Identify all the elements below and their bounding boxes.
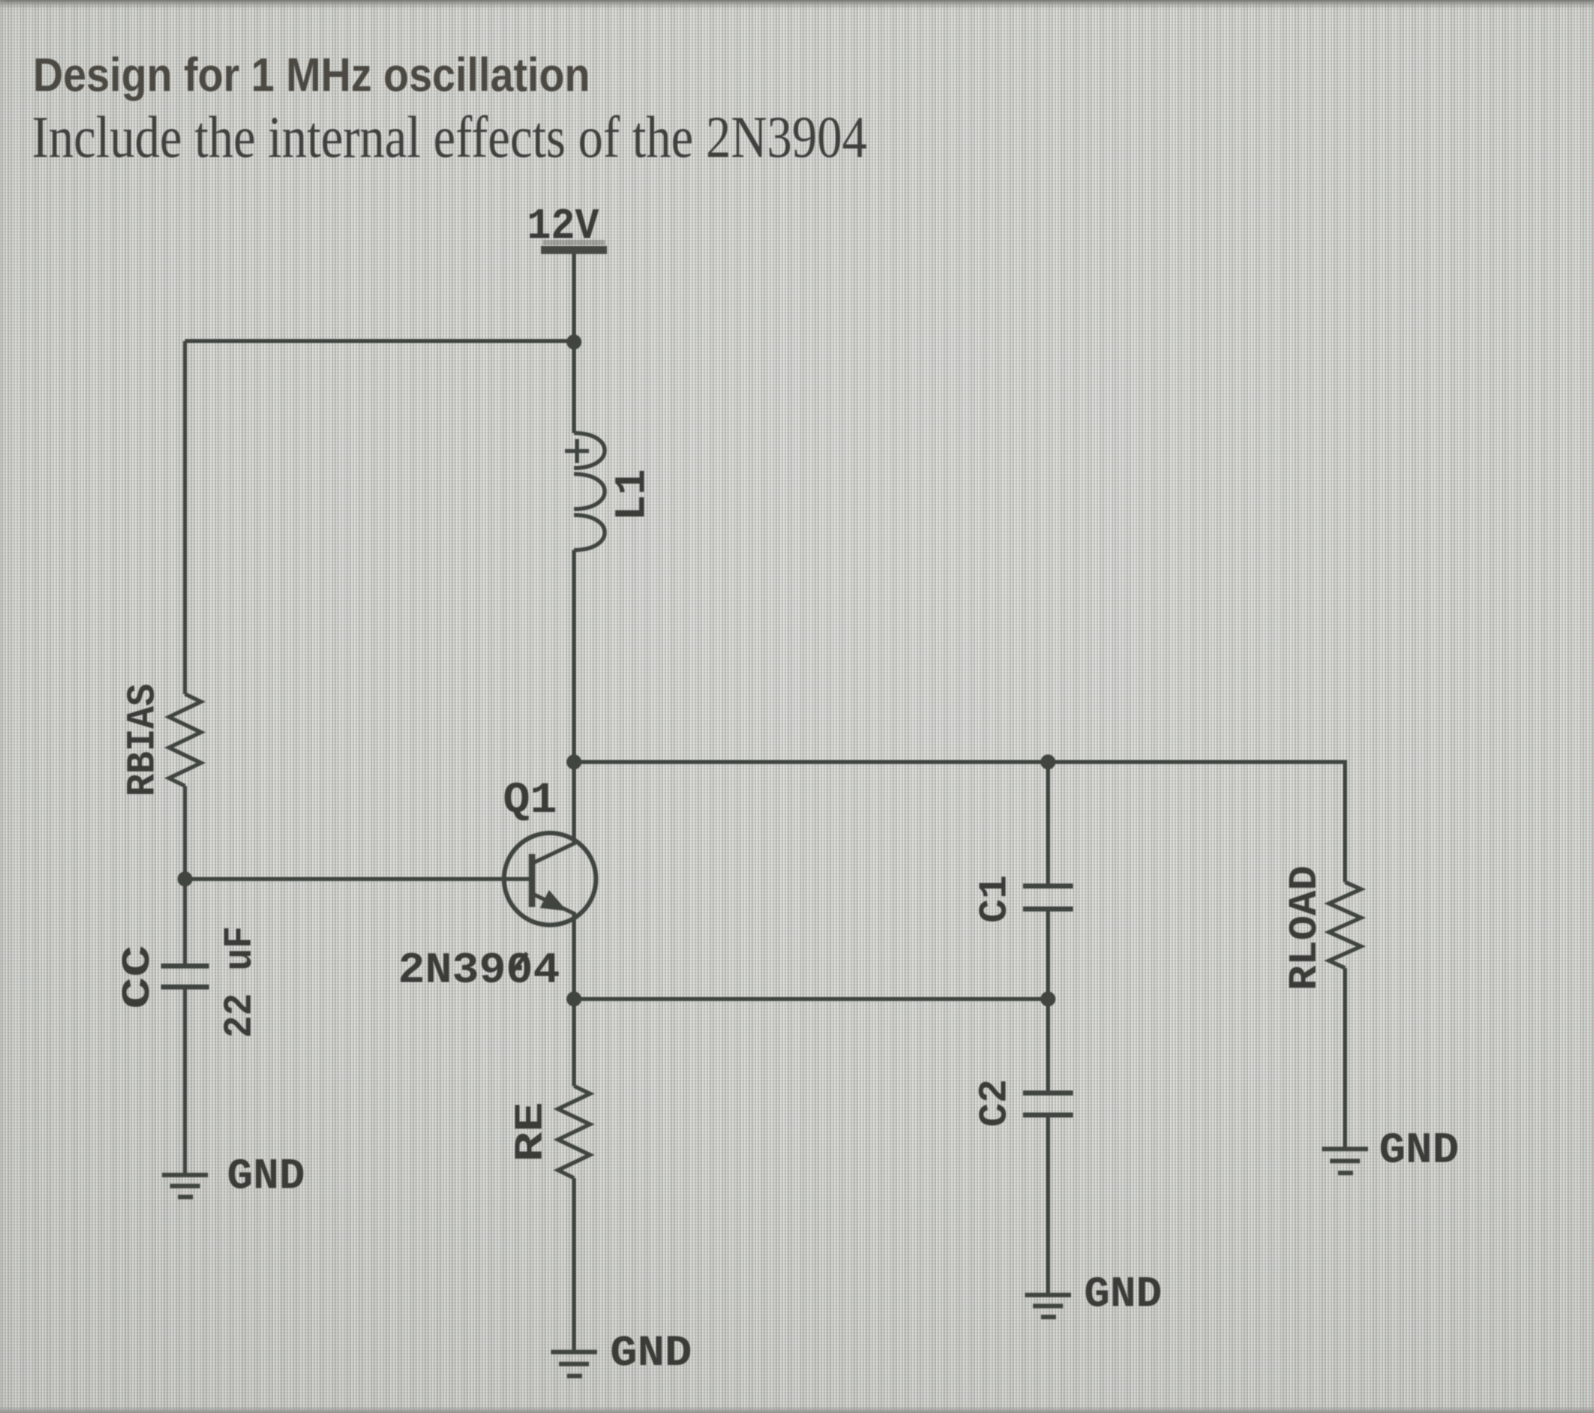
wire: collector row horizontal to RLOAD corner [574,762,1345,882]
wire: mid junction to C2 top plate [1046,999,1050,1093]
resistor RE [558,1086,590,1178]
node: emitter junction [567,992,582,1007]
wire: inductor bottom to transistor collector [572,550,576,845]
wire: emitter down to emitter junction [572,912,576,999]
transistor Q1 collector diagonal [533,843,575,863]
svg-text:GND: GND [227,1152,305,1202]
svg-text:GND: GND [1084,1270,1162,1320]
svg-text:Q1: Q1 [503,776,557,826]
transistor Q1 base bar [529,854,536,907]
ground (C2) [1025,1295,1071,1317]
capacitor C1 plates [1023,886,1073,909]
svg-text:2N3904: 2N3904 [398,946,560,996]
wire: emitter row horizontal [574,997,1048,1001]
wire: top rail horizontal to left column [185,339,574,343]
svg-text:RLOAD: RLOAD [1284,866,1329,991]
wire: base wire from left junction [185,877,530,881]
label 2N3904 zero slash [511,953,527,974]
inductor polarity plus [565,439,589,463]
node: C1 top junction [1041,755,1056,770]
svg-text:L1: L1 [608,469,658,521]
svg-text:Include the internal effects o: Include the internal effects of the 2N39… [32,104,867,170]
transistor Q1 circle [504,833,596,925]
inductor L1 coil [574,433,605,550]
svg-text:22 uF: 22 uF [219,926,264,1038]
wire: C2 bottom to GND [1046,1115,1050,1295]
node: junction 12V rail / left branch [567,335,582,350]
wire: RE bottom to GND [572,1178,576,1352]
wire: C1 bottom to mid junction [1046,909,1050,999]
wire: 12V bar to inductor top [572,254,576,433]
transistor Q1 emitter diagonal [533,894,575,914]
svg-text:C2: C2 [974,1079,1019,1127]
wire: CC bottom to GND [183,987,187,1175]
svg-text:C1: C1 [974,875,1019,923]
ground (left, CC) [162,1175,208,1197]
title line 2 [32,104,867,170]
wire: emitter junction down to RE [572,999,576,1086]
resistor RBIAS [169,694,201,786]
wire: RBIAS bottom to base junction [183,786,187,879]
svg-text:GND: GND [1379,1126,1459,1176]
svg-text:12V: 12V [527,202,600,252]
wire: RLOAD bottom to GND [1343,968,1347,1149]
svg-text:CC: CC [117,945,162,1009]
capacitor C2 plates [1023,1093,1073,1115]
wire: base junction to CC top plate [183,879,187,966]
svg-text:Design for 1 MHz oscillation: Design for 1 MHz oscillation [33,48,590,101]
title line 1 [33,48,590,101]
node: collector junction [567,755,582,770]
ground (RLOAD) [1322,1149,1368,1173]
resistor RLOAD [1329,882,1361,968]
svg-text:RE: RE [510,1102,555,1162]
svg-text:RBIAS: RBIAS [122,684,167,797]
node: base-left junction [178,872,193,887]
wire: C1 junction down to C1 top plate [1046,762,1050,886]
power symbol 12V bar [541,240,607,254]
svg-text:GND: GND [610,1329,692,1379]
node: C1/C2 mid junction [1041,992,1056,1007]
wire: left column vertical down to RBIAS [183,341,187,694]
capacitor CC plates [161,966,209,987]
transistor Q1 emitter arrow [540,890,567,911]
ground (RE) [551,1352,597,1376]
